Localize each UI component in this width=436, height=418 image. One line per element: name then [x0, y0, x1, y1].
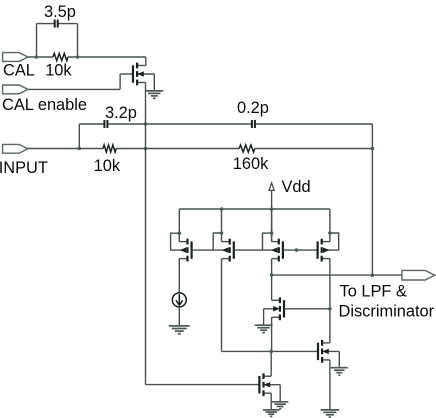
svg-text:CAL enable: CAL enable [2, 96, 87, 114]
svg-text:3.5p: 3.5p [44, 3, 76, 21]
svg-text:To LPF &: To LPF & [340, 283, 407, 301]
svg-text:160k: 160k [233, 155, 269, 173]
svg-text:Discriminator: Discriminator [339, 303, 435, 321]
svg-text:0.2p: 0.2p [237, 99, 269, 117]
svg-text:CAL: CAL [3, 62, 35, 80]
svg-text:3.2p: 3.2p [105, 104, 137, 122]
svg-text:10k: 10k [94, 157, 121, 175]
svg-text:INPUT: INPUT [0, 159, 48, 177]
svg-text:10k: 10k [45, 62, 72, 80]
svg-text:Vdd: Vdd [282, 178, 311, 196]
